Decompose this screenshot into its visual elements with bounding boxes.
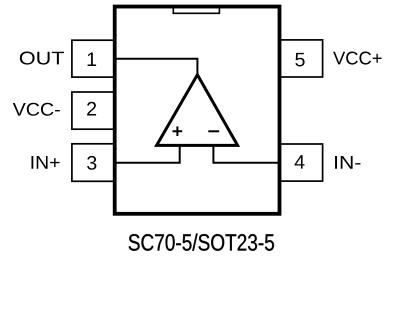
label VCC+ (pin 5) [333, 52, 382, 65]
package outline U1 [115, 7, 280, 214]
pin 3 number [87, 156, 96, 170]
pin 4 number [295, 155, 305, 168]
pin 1 box [72, 40, 115, 77]
op-amp minus input mark [208, 130, 219, 132]
pin 5 box [279, 40, 322, 77]
label IN- (pin 4) [335, 156, 360, 169]
pin 4 box [279, 144, 322, 181]
pin 2 box [72, 92, 115, 129]
wire pin4 to op-amp inverting input [213, 145, 279, 162]
pin 3 box [72, 144, 115, 182]
pin 2 number [87, 102, 96, 116]
pin 5 number [295, 53, 304, 67]
orientation notch [173, 8, 219, 13]
caption SC70-5/SOT23-5 [129, 233, 274, 250]
op-amp plus input mark [173, 126, 183, 136]
op-amp triangle [157, 75, 238, 146]
label IN+ (pin 3) [31, 156, 59, 169]
label VCC- (pin 2) [13, 103, 60, 116]
wire pin1 to op-amp output [114, 59, 197, 75]
pin 1 number [88, 53, 96, 66]
wire pin3 to op-amp non-inverting input [114, 145, 180, 162]
label OUT (pin 1) [20, 52, 64, 65]
